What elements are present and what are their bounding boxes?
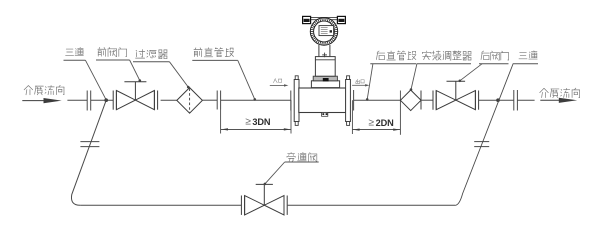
transmitter base plate <box>311 81 339 88</box>
svg-text:≥: ≥ <box>245 117 251 128</box>
outlet arrow <box>352 84 369 86</box>
label front-valve <box>96 47 141 81</box>
svg-text:≥: ≥ <box>368 118 374 129</box>
wire bypass drop right + tee leader right <box>455 64 513 205</box>
transmitter mounting bar <box>302 17 346 19</box>
wire upstream straight pipe <box>221 99 291 101</box>
label filter <box>133 50 190 89</box>
wire bypass drop left <box>71 100 106 205</box>
wire bypass bottom right <box>288 204 455 206</box>
wire pipe outlet <box>517 99 534 101</box>
flange F1 <box>87 91 91 111</box>
label medium-flow-direction right <box>540 88 580 97</box>
dimension text 2DN <box>368 118 394 129</box>
adjuster A1 diamond <box>400 90 421 111</box>
wire pipe adjuster-valve <box>421 99 433 101</box>
label tee left <box>64 47 108 101</box>
label medium-flow-direction left <box>24 85 64 94</box>
label bypass-valve <box>264 152 319 185</box>
transmitter pedestal box <box>315 57 335 77</box>
valve rear V2 <box>433 81 479 110</box>
svg-text:2DN: 2DN <box>376 118 395 128</box>
wire downstream straight pipe <box>354 99 401 101</box>
flange bypass left <box>80 142 99 147</box>
svg-text:3DN: 3DN <box>252 117 271 127</box>
valve bypass V3 <box>241 184 287 215</box>
wire bypass bottom left <box>80 204 241 206</box>
transmitter display <box>319 26 334 36</box>
wire pipe valve-tee right <box>479 99 514 101</box>
inlet arrow <box>270 84 289 86</box>
valve front V1 <box>113 82 157 110</box>
label upstream-straight-pipe <box>192 48 256 101</box>
wire pipe filter-flange <box>202 99 217 101</box>
flow arrow right <box>540 98 577 103</box>
meter flange right <box>346 76 351 126</box>
flange bypass right <box>474 142 489 147</box>
label rear-valve <box>459 51 509 82</box>
flange tick pipe-end left of meter <box>290 91 292 111</box>
wire pipe inlet <box>67 99 87 101</box>
node tee junction left <box>104 98 108 102</box>
flowmeter body <box>299 88 346 113</box>
label downstream-straight-pipe <box>366 51 416 101</box>
flow arrow left <box>22 98 61 103</box>
transmitter neck <box>319 45 330 57</box>
transmitter head housing <box>310 18 337 45</box>
flange F3 <box>514 90 518 111</box>
label inlet <box>273 79 281 83</box>
label tee right <box>513 51 538 64</box>
dimension extension lines 2DN <box>352 91 400 135</box>
dimension text 3DN <box>245 117 271 128</box>
label outlet <box>356 79 364 83</box>
dimension line 2DN <box>353 129 401 131</box>
flange tick pipe-end right of meter <box>353 90 355 111</box>
cable gland right <box>337 16 345 23</box>
dimension line 3DN <box>221 128 291 130</box>
label adjuster <box>410 51 471 91</box>
transmitter plus mark <box>322 53 327 58</box>
dimension extension lines 3DN <box>221 100 291 133</box>
meter drain plug <box>322 113 328 117</box>
wire pipe valve-filter <box>161 99 177 101</box>
flange F2 <box>217 91 220 110</box>
cable gland left <box>303 16 311 23</box>
transmitter collar <box>313 76 337 81</box>
wire pipe to tee <box>91 99 114 101</box>
meter flange left <box>294 76 299 126</box>
filter Y1 diamond <box>177 88 203 114</box>
node tee junction right <box>496 98 500 102</box>
